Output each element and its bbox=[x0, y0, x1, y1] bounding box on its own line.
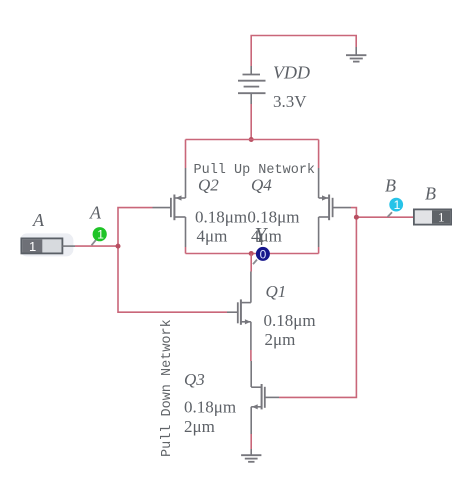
svg-text:Q4: Q4 bbox=[251, 176, 272, 195]
svg-text:VDD: VDD bbox=[273, 63, 310, 83]
wire left rail lower red bbox=[185, 247, 187, 254]
svg-text:4μm: 4μm bbox=[197, 226, 228, 245]
nmos Q1 bbox=[238, 299, 251, 324]
Q1 gate lead bbox=[227, 311, 238, 313]
Q2 source lead bbox=[185, 168, 187, 198]
wire Q3 source to ground bbox=[250, 407, 252, 455]
wire pull-up top rail bbox=[186, 139, 319, 141]
svg-text:2μm: 2μm bbox=[184, 417, 215, 436]
svg-text:1: 1 bbox=[438, 210, 445, 225]
svg-text:Q3: Q3 bbox=[184, 370, 205, 389]
pmos Q4 bbox=[319, 195, 351, 221]
junction net A bbox=[116, 244, 121, 249]
wire right rail upper bbox=[318, 140, 320, 169]
wire battery bottom to pull-up rail bbox=[250, 104, 252, 140]
node badge 0 tail bbox=[253, 260, 257, 265]
svg-text:0.18μm: 0.18μm bbox=[195, 207, 247, 226]
svg-text:0.18μm: 0.18μm bbox=[184, 398, 236, 417]
svg-text:1: 1 bbox=[29, 239, 36, 254]
svg-text:2μm: 2μm bbox=[265, 330, 296, 349]
probe badge B bbox=[389, 198, 403, 212]
svg-text:4μm: 4μm bbox=[251, 226, 282, 245]
pmos Q2 bbox=[153, 195, 186, 221]
junction bottom rail node Y bbox=[249, 251, 254, 256]
svg-text:Q2: Q2 bbox=[198, 176, 219, 195]
svg-text:B: B bbox=[385, 176, 396, 196]
Q1 drain lead bbox=[250, 272, 252, 303]
ground top right bbox=[346, 47, 366, 62]
svg-text:Q1: Q1 bbox=[266, 282, 287, 301]
svg-text:1: 1 bbox=[394, 198, 401, 212]
wire left rail lower (Q2 drain lead) bbox=[185, 217, 187, 247]
node badge 0 bbox=[256, 247, 270, 261]
wire node Y to Q1 drain bbox=[250, 254, 252, 272]
wire battery top to top-right ground bbox=[251, 36, 356, 67]
probe badge A tail bbox=[92, 240, 97, 246]
wire left rail upper bbox=[185, 140, 187, 169]
wire net B: Q4 gate, output probe, Q3 gate bbox=[279, 208, 414, 398]
svg-text:Pull Down Network: Pull Down Network bbox=[160, 319, 175, 457]
wire net A: input to Q2 and Q1 gates bbox=[75, 208, 227, 313]
ground bottom bbox=[241, 455, 261, 462]
Q4 source lead bbox=[318, 168, 320, 198]
wire right rail lower (Q4 drain lead) bbox=[318, 217, 320, 247]
svg-text:0: 0 bbox=[260, 247, 267, 261]
output probe B body bbox=[414, 209, 451, 224]
svg-text:0.18μm: 0.18μm bbox=[247, 207, 299, 226]
nmos Q3 bbox=[251, 384, 279, 409]
svg-text:A: A bbox=[32, 210, 45, 230]
output probe B tail bbox=[388, 212, 392, 217]
svg-text:B: B bbox=[425, 184, 436, 204]
wire right rail lower red bbox=[318, 247, 320, 254]
input switch A body bbox=[21, 238, 62, 254]
svg-text:1: 1 bbox=[97, 228, 104, 242]
input switch A glow bbox=[20, 233, 73, 256]
svg-text:A: A bbox=[89, 203, 102, 223]
wire Q1 source to Q3 drain bbox=[250, 322, 252, 387]
probe badge A bbox=[93, 227, 107, 242]
input switch pin bbox=[62, 245, 75, 247]
junction net B bbox=[354, 215, 359, 220]
svg-text:3.3V: 3.3V bbox=[273, 92, 307, 111]
wire pull-up bottom rail bbox=[186, 253, 319, 255]
svg-text:0.18μm: 0.18μm bbox=[264, 311, 316, 330]
battery V1 VDD 3.3V bbox=[238, 66, 266, 104]
junction top rail bbox=[249, 137, 254, 142]
